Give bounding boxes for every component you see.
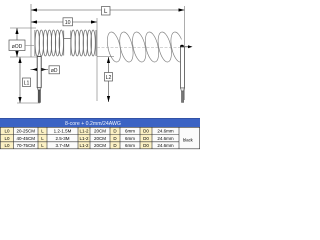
svg-text:20CM: 20CM xyxy=(94,143,106,148)
svg-text:24.6mm: 24.6mm xyxy=(157,136,174,141)
svg-text:40-45CM: 40-45CM xyxy=(16,136,35,141)
svg-text:20CM: 20CM xyxy=(94,129,106,134)
svg-text:øOD: øOD xyxy=(12,44,23,50)
svg-text:2.5-3M: 2.5-3M xyxy=(55,136,69,141)
svg-text:L1-2: L1-2 xyxy=(79,129,89,134)
svg-text:20CM: 20CM xyxy=(94,136,106,141)
svg-text:20-25CM: 20-25CM xyxy=(16,129,35,134)
svg-text:L0: L0 xyxy=(4,136,10,141)
svg-text:24.6mm: 24.6mm xyxy=(157,129,174,134)
svg-text:D0: D0 xyxy=(143,129,149,134)
svg-text:6mm: 6mm xyxy=(125,143,135,148)
svg-text:8-core + 0.2mm/24AWG: 8-core + 0.2mm/24AWG xyxy=(65,121,121,127)
svg-text:L2: L2 xyxy=(106,75,112,81)
svg-text:øD: øD xyxy=(51,68,58,74)
svg-text:D0: D0 xyxy=(143,136,149,141)
svg-text:3.7-4M: 3.7-4M xyxy=(55,143,69,148)
svg-text:L1: L1 xyxy=(24,81,30,87)
svg-text:D0: D0 xyxy=(143,143,149,148)
svg-text:70-75CM: 70-75CM xyxy=(16,143,35,148)
svg-text:24.6mm: 24.6mm xyxy=(157,143,174,148)
svg-text:6mm: 6mm xyxy=(125,129,135,134)
svg-text:1.2-1.5M: 1.2-1.5M xyxy=(54,129,72,134)
svg-text:L0: L0 xyxy=(4,129,10,134)
svg-text:L1-2: L1-2 xyxy=(79,136,89,141)
svg-text:black: black xyxy=(183,137,194,142)
svg-text:10: 10 xyxy=(65,20,71,26)
svg-text:L1-2: L1-2 xyxy=(79,143,89,148)
svg-text:L0: L0 xyxy=(4,143,10,148)
svg-text:6mm: 6mm xyxy=(125,136,135,141)
